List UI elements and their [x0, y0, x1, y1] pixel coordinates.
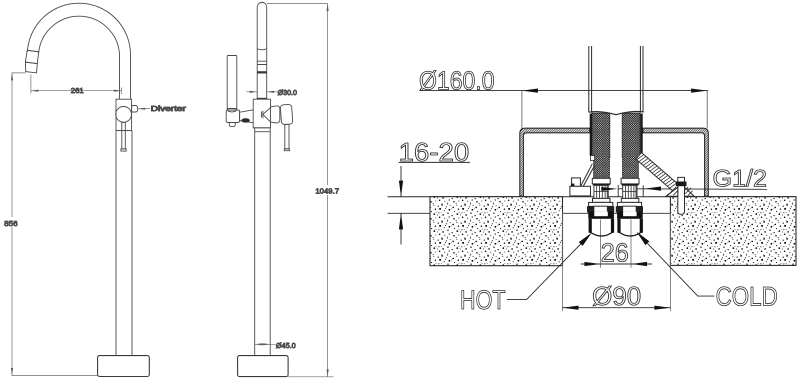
- hot upper flange band: [593, 198, 611, 202]
- shower holder ring: [226, 110, 239, 123]
- svg-text:856: 856: [4, 219, 17, 228]
- shell left thick edge: [590, 114, 592, 156]
- faucet shell right sectioned bar: [622, 113, 640, 178]
- valve body (side view): [253, 99, 270, 128]
- dimension 16-20 arrow lines: [400, 166, 402, 245]
- dimension 261 extension line: [30, 75, 32, 94]
- holder clamp knob (dark): [241, 118, 250, 122]
- svg-text:261: 261: [71, 86, 84, 95]
- cold flange left wing (dark): [616, 206, 623, 212]
- left anchor clamp dark block: [571, 184, 575, 187]
- dimension 261 line: [31, 90, 121, 92]
- valve cone: [263, 108, 271, 122]
- escutcheon cover right wall and top (sectioned): [643, 128, 708, 196]
- cold tail pipe walls (black): [617, 219, 620, 233]
- body top dark tick: [257, 98, 267, 99]
- hot dark seat band: [593, 184, 610, 186]
- handle lever rod (front view): [122, 122, 126, 148]
- svg-text:1049.7: 1049.7: [315, 186, 339, 195]
- dimension 856 extension/dimension lines: [12, 73, 98, 376]
- shower holder bracket: [240, 110, 254, 123]
- floor base (side view): [238, 356, 289, 377]
- hot threaded section: [594, 185, 608, 198]
- dimension Ø45.0 arrows (inside pointing out): [255, 343, 271, 345]
- cold wide flange: [617, 202, 641, 206]
- svg-text:G1/2: G1/2: [713, 166, 768, 193]
- hot collar nut: [592, 178, 610, 184]
- G1/2 leader line: [618, 188, 767, 191]
- dimension 1049.7 arrows: [327, 4, 329, 377]
- valve body (front view): [116, 99, 132, 130]
- dimension Ø160.0 extension lines: [522, 91, 707, 129]
- left concrete slab: [430, 197, 563, 266]
- hot thread ribs: [594, 185, 608, 198]
- G1/2 callout arrows: [601, 187, 661, 191]
- COLD leader line: [647, 243, 714, 296]
- hot flange left wing (dark): [587, 206, 594, 212]
- riser tube segments over mask: [589, 108, 643, 113]
- dimension 26 arrows (outside pointing in): [584, 262, 647, 266]
- floor top surface line: [388, 196, 796, 198]
- dimension 856 arrows: [11, 73, 13, 376]
- hot tail break arc: [589, 232, 613, 237]
- cold flange right wing (dark): [636, 206, 643, 212]
- HOT leader line: [507, 244, 581, 299]
- pipe joint lines: [257, 61, 267, 64]
- finished floor underside line (16-20 band): [388, 212, 671, 214]
- spout nozzle joint line: [27, 50, 39, 52]
- HOT leader arrow: [579, 233, 592, 246]
- handle hex adapter: [271, 106, 280, 123]
- svg-text:HOT: HOT: [460, 285, 506, 315]
- hand shower bottom chamfer: [227, 109, 237, 113]
- svg-text:Ø30.0: Ø30.0: [278, 88, 297, 97]
- left anchor base plate: [570, 186, 591, 196]
- floor base (front view): [98, 356, 150, 377]
- wavy break line: [589, 112, 644, 115]
- dimension Ø90 line: [562, 307, 670, 309]
- svg-text:Ø160.0: Ø160.0: [419, 67, 495, 95]
- spout nozzle middle segment: [25, 50, 38, 63]
- hot tail pipe walls (black): [589, 219, 592, 233]
- hot wide flange: [589, 202, 613, 206]
- hot flange right wing (dark): [607, 206, 614, 212]
- dimension text 856: [3, 217, 18, 227]
- dimension Ø30.0 arrows: [250, 91, 275, 93]
- COLD supply connector assembly: [616, 178, 643, 236]
- stud dark collar: [676, 182, 687, 187]
- column joint line: [255, 131, 271, 133]
- dimension 1049.7 vertical line: [327, 4, 329, 377]
- break mask above wavy line: [588, 109, 644, 115]
- left anchor clamp: [572, 178, 581, 187]
- diverter leader arrow: [138, 108, 150, 110]
- dimension 261 pipe tick: [120, 88, 122, 95]
- cold lock cup (black U): [617, 212, 643, 219]
- spout nozzle tip segment: [25, 62, 37, 73]
- shell left hose step: [590, 156, 594, 161]
- handle rod: [285, 124, 289, 149]
- cold threaded section: [623, 185, 637, 198]
- dimension Ø160.0 arrows: [522, 89, 707, 93]
- diagonal outlet pipe to G1/2: [636, 153, 680, 192]
- stud flange nut left wedge: [666, 187, 678, 196]
- spout outlet curve: [257, 49, 267, 50]
- valve cone apex cap: [262, 111, 263, 119]
- 26 extension lines: [600, 220, 631, 268]
- hot flange center: [594, 206, 607, 212]
- svg-text:Ø90: Ø90: [592, 283, 641, 311]
- cold upper flange band: [621, 198, 639, 202]
- cold tail break arc: [618, 232, 642, 237]
- cold flange center: [623, 206, 636, 212]
- right concrete slab: [670, 197, 796, 266]
- spout gooseneck arc (front view): [27, 3, 130, 99]
- escutcheon cover left wall and top (sectioned): [520, 128, 590, 196]
- cold collar nut: [621, 178, 639, 184]
- G1/2 leader ticks: [618, 185, 643, 197]
- handle grip: [280, 104, 293, 125]
- dimension 261 arrows: [31, 90, 121, 92]
- lower column (side view): [253, 128, 270, 356]
- hand shower wand: [227, 56, 237, 109]
- svg-text:26: 26: [601, 240, 629, 268]
- cold dark seat band: [622, 184, 639, 186]
- dimension 16-20 underline: [399, 161, 470, 163]
- diverter knob: [132, 106, 138, 113]
- valve cartridge circle: [116, 107, 132, 123]
- svg-text:Diverter: Diverter: [151, 104, 187, 113]
- dimension Ø30.0 lines: [246, 91, 277, 93]
- dimension 1049.7 extension at top: [267, 3, 328, 5]
- dimension text 1049.7: [314, 185, 340, 195]
- dimension 1049.7 bottom extension: [288, 376, 333, 378]
- riser pipe with rounded top (side view): [257, 2, 267, 99]
- riser tubes above break: [589, 46, 643, 113]
- svg-text:Ø45.0: Ø45.0: [276, 341, 296, 350]
- hand shower lower tip: [229, 122, 235, 126]
- stud flange nut right wedge: [685, 187, 695, 196]
- dimension Ø90 arrows: [562, 306, 670, 310]
- dimension Ø160.0 line: [420, 90, 709, 92]
- G1/2 wall outlet stud: [678, 177, 685, 214]
- faucet shell left sectioned bar: [592, 113, 610, 178]
- left support brace: [581, 164, 595, 187]
- hot lock cup (black U): [588, 212, 614, 219]
- svg-text:COLD: COLD: [716, 282, 778, 312]
- shell right thick edge: [640, 114, 643, 155]
- dark seam band: [257, 71, 267, 73]
- Ø90 extension lines: [562, 212, 670, 311]
- handle rod end cap: [284, 149, 289, 151]
- dimension 26 line: [581, 263, 652, 265]
- dimension 16-20 arrows: [399, 181, 403, 230]
- riser column (front view): [116, 131, 132, 356]
- COLD leader arrow: [637, 232, 650, 246]
- cold thread ribs: [623, 185, 637, 198]
- handle lever end cap: [121, 149, 126, 151]
- HOT supply connector assembly: [587, 178, 614, 236]
- dimension Ø45.0 line: [255, 343, 276, 345]
